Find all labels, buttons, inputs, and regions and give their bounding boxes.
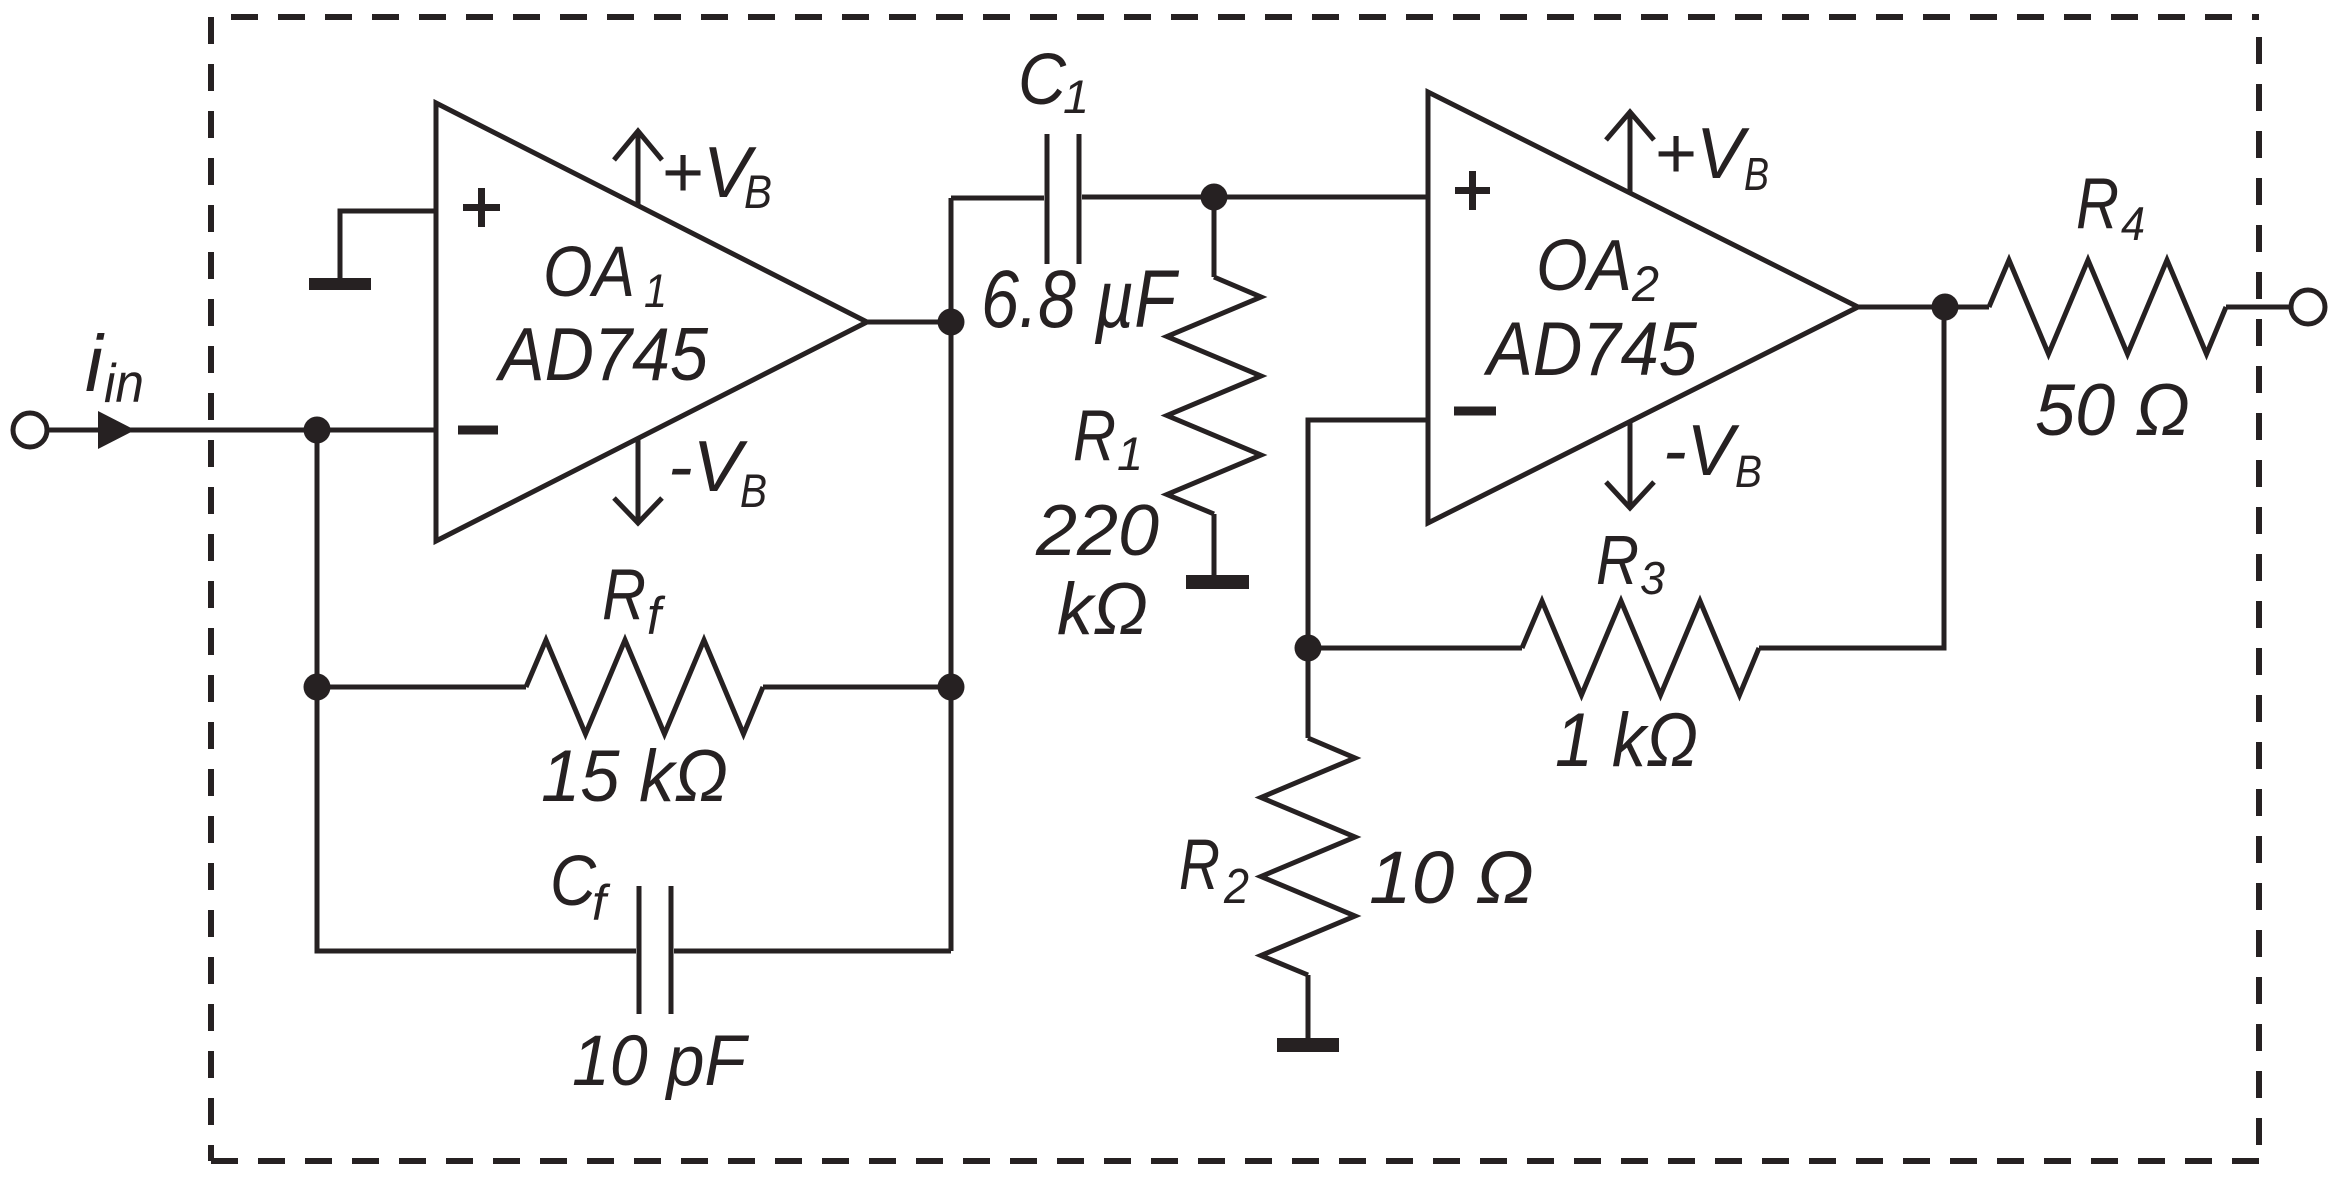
label R1 — [1073, 396, 1143, 480]
svg-text:C: C — [550, 842, 597, 921]
label Cf — [550, 842, 611, 931]
svg-text:50 Ω: 50 Ω — [2035, 370, 2190, 451]
svg-text:4: 4 — [2121, 197, 2145, 250]
wire input to OA1 inverting input — [47, 428, 436, 433]
svg-text:-V: -V — [668, 427, 748, 507]
supply arrow -VB of OA2 — [1628, 423, 1633, 506]
label C1 — [1018, 40, 1089, 123]
svg-text:OA: OA — [543, 233, 635, 312]
svg-text:1: 1 — [1063, 70, 1089, 123]
svg-text:kΩ: kΩ — [1057, 569, 1148, 650]
op-amp U2 minus pin mark — [1454, 407, 1496, 416]
node E junction dot (C1/R1) — [1201, 184, 1228, 211]
label R2 — [1179, 826, 1249, 914]
label R4 — [2076, 164, 2145, 250]
op-amp U1 plus pin mark — [463, 188, 500, 227]
supply arrow +VB of OA2 — [1628, 114, 1633, 192]
svg-text:R: R — [1073, 396, 1116, 476]
node C junction dot (OA1 output) — [938, 309, 965, 336]
supply arrow +VB of OA1 — [636, 133, 641, 206]
ground (OA1 + input) — [309, 278, 371, 290]
wire node C up to C1 — [951, 196, 1044, 201]
svg-text:3: 3 — [1640, 552, 1665, 604]
wire OA1 noninverting input to ground — [340, 211, 436, 278]
wire OA2 output to node G — [1858, 305, 1989, 310]
svg-text:15 kΩ: 15 kΩ — [541, 736, 728, 817]
svg-text:220: 220 — [1035, 491, 1159, 571]
svg-text:R: R — [2076, 164, 2119, 244]
label i_in — [85, 319, 144, 414]
label OA2 — [1536, 226, 1659, 312]
wire right vertical bus from C1 corner down through Rf node to Cf — [949, 198, 954, 951]
label OA1 — [543, 233, 667, 317]
resistor R4 zigzag with leads — [1989, 260, 2226, 354]
op-amp U1 minus pin mark — [458, 426, 498, 435]
wire C1 to OA2 noninverting input — [1082, 195, 1428, 200]
svg-text:B: B — [740, 464, 767, 517]
svg-text:i: i — [85, 319, 105, 408]
wire node A down to Rf left node — [315, 430, 320, 687]
svg-text:2: 2 — [1223, 860, 1249, 914]
capacitor Cf — [639, 886, 671, 1014]
svg-text:B: B — [1744, 148, 1769, 200]
svg-text:10 pF: 10 pF — [572, 1022, 749, 1101]
op-amp U2 OA2 triangle — [1428, 92, 1858, 523]
node A junction dot (input node) — [304, 417, 331, 444]
svg-text:+V: +V — [661, 133, 757, 213]
label +VB (OA1) — [661, 133, 772, 218]
svg-text:R: R — [1596, 521, 1639, 599]
svg-text:-V: -V — [1663, 411, 1740, 491]
svg-text:2: 2 — [1631, 256, 1659, 312]
resistor R2 zigzag with leads — [1306, 648, 1311, 738]
ground (R2) — [1277, 1038, 1339, 1052]
resistor R3 zigzag with leads — [1308, 646, 1522, 651]
svg-text:R: R — [602, 555, 646, 635]
supply arrow -VB of OA1 — [636, 438, 641, 521]
wire Cf right plate to right vertical bus — [674, 949, 951, 954]
node G junction dot (OA2 output) — [1932, 294, 1959, 321]
svg-text:1 kΩ: 1 kΩ — [1555, 698, 1698, 783]
resistor Rf zigzag with leads — [317, 685, 526, 690]
svg-text:1: 1 — [644, 264, 667, 317]
svg-text:OA: OA — [1536, 226, 1632, 306]
label Rf — [602, 555, 666, 646]
wire OA1 output to node C — [867, 320, 951, 325]
node B junction dot (Rf left) — [304, 674, 331, 701]
svg-text:1: 1 — [1117, 427, 1143, 480]
op-amp U1 OA1 triangle — [436, 103, 867, 541]
op-amp U2 plus pin mark — [1455, 171, 1490, 210]
resistor R1 zigzag with leads — [1212, 197, 1217, 277]
label R3 — [1596, 521, 1665, 604]
capacitor C1 — [1047, 134, 1079, 264]
ground (R1) — [1186, 575, 1249, 589]
svg-text:B: B — [1735, 446, 1762, 497]
output terminal — [2291, 290, 2325, 324]
svg-text:+V: +V — [1654, 114, 1750, 194]
svg-text:in: in — [104, 352, 144, 414]
svg-text:C: C — [1018, 40, 1067, 120]
svg-text:f: f — [647, 587, 666, 646]
wire node B down and right to Cf left plate — [317, 687, 636, 951]
current arrow i_in — [98, 411, 135, 449]
svg-text:AD745: AD745 — [1483, 307, 1697, 392]
label -VB (OA1) — [668, 427, 767, 517]
svg-text:B: B — [744, 165, 772, 218]
input terminal — [13, 413, 47, 447]
node F junction dot (R2/R3) — [1295, 635, 1322, 662]
label +VB (OA2) — [1654, 114, 1769, 200]
svg-text:6.8 µF: 6.8 µF — [981, 254, 1179, 345]
svg-text:AD745: AD745 — [495, 312, 708, 396]
wire OA2 inverting input to node F — [1308, 420, 1428, 648]
svg-text:f: f — [592, 875, 611, 931]
label -VB (OA2) — [1663, 411, 1762, 497]
svg-text:R: R — [1179, 826, 1220, 905]
svg-text:10 Ω: 10 Ω — [1369, 836, 1534, 919]
node D junction dot (Rf right) — [938, 674, 965, 701]
